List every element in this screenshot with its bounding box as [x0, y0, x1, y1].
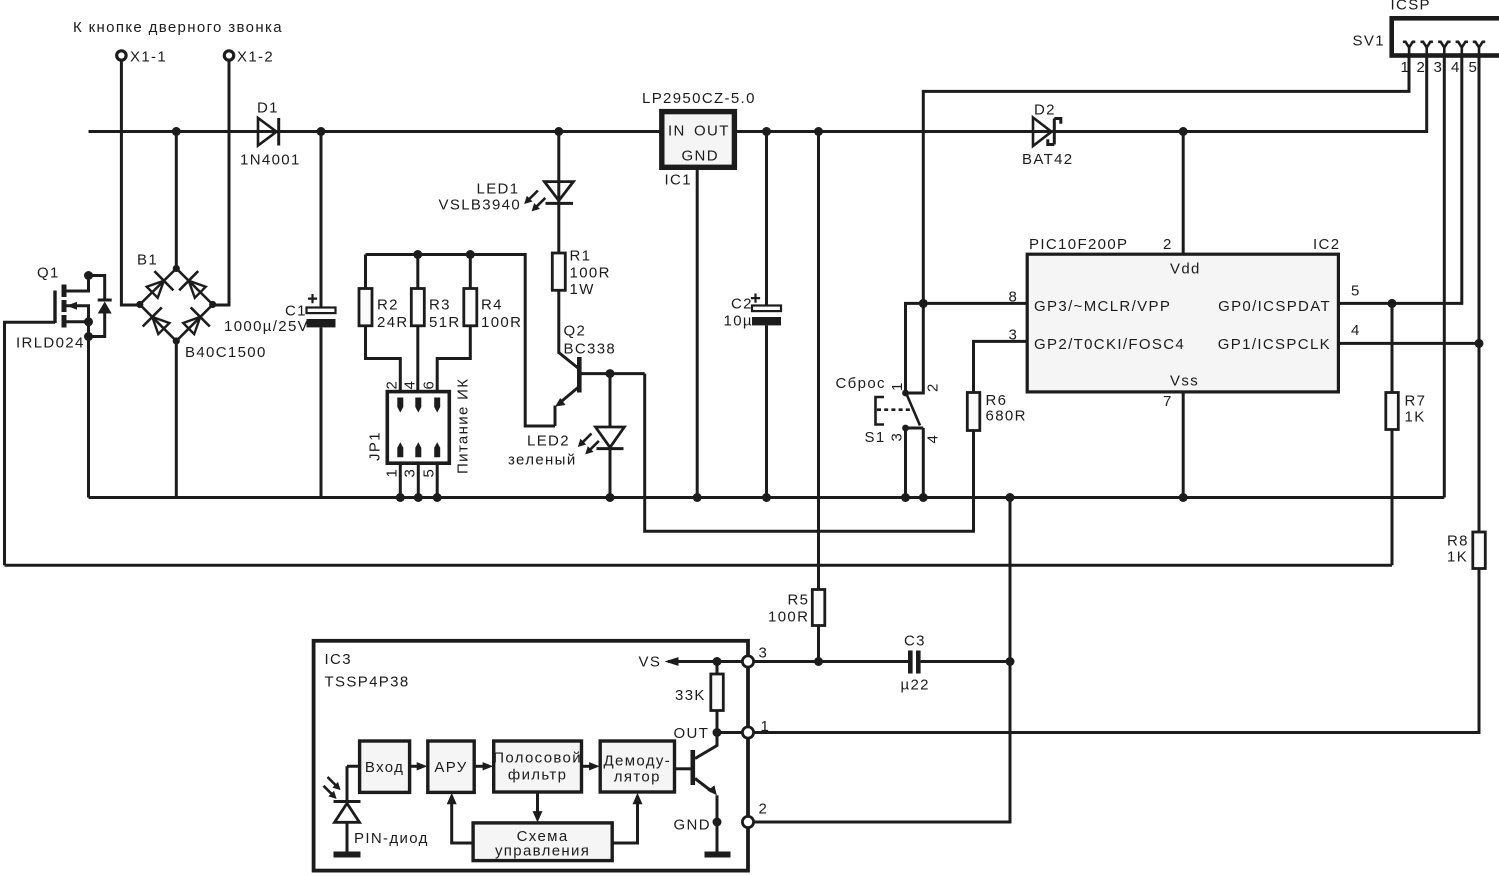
- wire Vss pin 7 to rail: [1182, 392, 1185, 498]
- svg-text:IC2: IC2: [1313, 236, 1340, 253]
- node +5 rail to Vdd: [1179, 127, 1188, 136]
- wire Q2 base to GP2 via R6: [645, 374, 974, 532]
- svg-text:лятор: лятор: [614, 769, 661, 786]
- svg-text:7: 7: [1163, 393, 1173, 410]
- pinheads: [1403, 42, 1415, 57]
- wire B1 top vertex to rail: [175, 132, 178, 269]
- jumper block JP1: [367, 378, 472, 478]
- svg-text:5: 5: [1351, 283, 1361, 300]
- svg-text:100R: 100R: [768, 609, 809, 626]
- MOSFET Q1 IRLD024: [16, 265, 112, 352]
- block Демодулятор: [600, 741, 674, 792]
- body diode (filled): [98, 302, 112, 314]
- svg-text:24R: 24R: [377, 314, 409, 331]
- resistor R2 24R: [359, 255, 409, 393]
- svg-text:3: 3: [402, 468, 419, 478]
- svg-text:GND: GND: [674, 817, 711, 834]
- resistor R1 100R 1W: [552, 248, 610, 299]
- block АРУ: [428, 741, 474, 792]
- transistor Q2 BC338: [555, 323, 645, 427]
- svg-text:PIC10F200P: PIC10F200P: [1029, 236, 1128, 253]
- svg-text:Q1: Q1: [37, 265, 60, 282]
- IC3 pin 3 (VS): [742, 645, 768, 668]
- wire Vdd pin 2: [1182, 132, 1185, 255]
- wire X1-2 down to bridge right vertex: [212, 62, 229, 306]
- svg-text:R2: R2: [377, 297, 399, 314]
- svg-text:зеленый: зеленый: [508, 452, 577, 469]
- drain lead: [66, 276, 89, 292]
- arrow Схема to АРУ: [452, 803, 473, 843]
- svg-text:D2: D2: [1034, 102, 1056, 119]
- LED1 VSLB3940: [439, 132, 574, 254]
- svg-text:1: 1: [761, 718, 771, 735]
- pushbutton S1 (reset): [836, 303, 942, 502]
- svg-text:3: 3: [889, 432, 906, 442]
- IC3 pin 1 (OUT): [742, 718, 770, 738]
- svg-text:управления: управления: [495, 843, 590, 860]
- wire IC1 GND to rail: [696, 167, 699, 497]
- svg-text:ICSP: ICSP: [1391, 0, 1431, 14]
- svg-text:100R: 100R: [481, 314, 522, 331]
- svg-text:3: 3: [1434, 59, 1444, 76]
- svg-text:LP2950CZ-5.0: LP2950CZ-5.0: [642, 90, 756, 107]
- microcontroller IC2 PIC10F200P: [1009, 236, 1361, 410]
- junction dots: [84, 271, 93, 280]
- arrow АРУ to Полосовой: [474, 765, 484, 768]
- wire B1 bottom vertex to ground rail: [175, 341, 178, 498]
- svg-text:10µ: 10µ: [724, 313, 753, 330]
- svg-text:IRLD024: IRLD024: [16, 335, 85, 352]
- switch arm: [907, 394, 921, 426]
- svg-text:5: 5: [1469, 59, 1479, 76]
- gate bar: [53, 291, 56, 324]
- svg-text:C2: C2: [731, 296, 753, 313]
- plus sign: [308, 294, 317, 303]
- IC3 internal: PIN photodiode: [324, 766, 429, 857]
- svg-text:BAT42: BAT42: [1022, 151, 1074, 168]
- wire VS line pin3 to C3 to GND vertical: [754, 660, 1011, 663]
- svg-text:1W: 1W: [570, 281, 595, 298]
- svg-text:R4: R4: [481, 297, 503, 314]
- svg-text:1: 1: [1401, 59, 1411, 76]
- svg-text:Демоду-: Демоду-: [604, 753, 672, 770]
- bottom tie and pins 3,4 to rail: [906, 428, 924, 498]
- svg-text:Полосовой: Полосовой: [493, 750, 582, 767]
- diode in bottom-left edge: [152, 317, 169, 334]
- svg-text:51R: 51R: [429, 314, 461, 331]
- arrow Полосовой down to Схема: [536, 792, 539, 812]
- svg-text:4: 4: [402, 380, 419, 390]
- wires JP1 bottom pins to ground rail: [400, 463, 437, 497]
- svg-text:Вход: Вход: [365, 759, 404, 776]
- source lead: [66, 320, 89, 323]
- resistor R6 680R: [967, 392, 1026, 431]
- diode in bottom-right edge: [183, 317, 200, 334]
- IC3 internal: OUT line: [674, 725, 743, 742]
- svg-text:R3: R3: [429, 297, 451, 314]
- svg-text:µ22: µ22: [901, 677, 930, 694]
- svg-text:D1: D1: [257, 100, 279, 117]
- bottom pin stubs: [397, 442, 403, 457]
- actuator bracket: [876, 397, 885, 425]
- IC3 internal: output transistor: [674, 733, 731, 858]
- svg-text:2: 2: [925, 382, 942, 392]
- svg-text:VSLB3940: VSLB3940: [439, 197, 522, 214]
- svg-text:фильтр: фильтр: [508, 767, 567, 784]
- IR receiver IC3 TSSP4P38: [314, 641, 748, 871]
- wire Q1 gate to long gate line: [5, 322, 56, 565]
- svg-text:B1: B1: [137, 252, 158, 269]
- svg-text:1N4001: 1N4001: [240, 152, 301, 169]
- svg-text:GP3/~MCLR/VPP: GP3/~MCLR/VPP: [1034, 298, 1171, 315]
- svg-text:1000µ/25V: 1000µ/25V: [224, 318, 309, 335]
- svg-text:R1: R1: [570, 248, 592, 265]
- svg-text:4: 4: [1451, 59, 1461, 76]
- svg-text:IN: IN: [668, 123, 686, 140]
- capacitor C1 1000u/25V: [224, 132, 336, 498]
- node Q2 base / LED2: [606, 369, 615, 378]
- svg-text:TSSP4P38: TSSP4P38: [325, 674, 410, 691]
- svg-text:X1-2: X1-2: [237, 49, 274, 66]
- svg-text:1K: 1K: [1405, 409, 1426, 426]
- svg-text:GP0/ICSPDAT: GP0/ICSPDAT: [1218, 298, 1331, 315]
- resistor R3 51R: [411, 255, 460, 393]
- emission arrows: [528, 191, 538, 201]
- svg-text:Сброс: Сброс: [836, 375, 886, 392]
- arrow Вход to АРУ: [410, 765, 418, 768]
- ICSP pin5 wire down through R8 to IC3 OUT: [1478, 57, 1481, 532]
- internal ground bar: [705, 852, 731, 858]
- svg-text:Питание ИК: Питание ИК: [455, 378, 472, 474]
- block Вход: [360, 741, 410, 792]
- svg-text:C1: C1: [285, 303, 307, 320]
- block Схема управления: [473, 823, 612, 861]
- IC3 internal: VS line with arrow: [639, 654, 743, 671]
- body diode branch: [89, 276, 105, 337]
- svg-text:4: 4: [1351, 322, 1361, 339]
- ICSP pin3 wire to ground rail: [1443, 57, 1446, 498]
- diode D1 1N4001: [240, 100, 301, 169]
- resistor R7 1K (gate series): [1386, 303, 1427, 565]
- base lead to right: [581, 372, 645, 375]
- resistor R5 100R (supply filter): [768, 127, 825, 662]
- svg-text:АРУ: АРУ: [434, 759, 467, 776]
- node rail/LED1: [554, 127, 563, 136]
- svg-text:VS: VS: [639, 654, 662, 671]
- emission arrows: [581, 434, 591, 444]
- svg-text:Q2: Q2: [564, 323, 587, 340]
- svg-text:C3: C3: [904, 633, 926, 650]
- node: rail to B1 top: [172, 127, 181, 136]
- svg-text:R7: R7: [1405, 393, 1427, 410]
- resistor bank top rail: [366, 255, 556, 427]
- svg-text:SV1: SV1: [1353, 33, 1385, 50]
- svg-text:1: 1: [384, 468, 401, 478]
- svg-text:GND: GND: [682, 148, 719, 165]
- svg-text:1K: 1K: [1447, 549, 1468, 566]
- svg-text:IC3: IC3: [325, 651, 352, 668]
- wire top rail right (+5V after IC1): [735, 57, 1427, 132]
- IC3 pin 2 (GND): [742, 801, 768, 828]
- svg-text:680R: 680R: [986, 408, 1027, 425]
- contacts: [902, 390, 909, 397]
- svg-text:GP1/ICSPCLK: GP1/ICSPCLK: [1218, 336, 1331, 353]
- svg-text:R8: R8: [1447, 533, 1469, 550]
- svg-text:B40C1500: B40C1500: [185, 344, 267, 361]
- svg-text:JP1: JP1: [367, 431, 384, 461]
- wire top rail left (unregulated +): [89, 130, 662, 133]
- wire IC3 GND pin2 to ground rail: [754, 498, 1011, 823]
- svg-text:2: 2: [1163, 236, 1173, 253]
- wire GP0 pin 5 to ICSP pin 4: [1338, 57, 1461, 303]
- svg-text:LED1: LED1: [477, 181, 520, 198]
- resistor R8 1K: [754, 532, 1486, 733]
- capacitor C3 u22: [901, 633, 930, 694]
- IC3 internal: 33K resistor: [675, 662, 723, 733]
- diode in top-left edge: [147, 281, 164, 298]
- svg-text:PIN-диод: PIN-диод: [354, 830, 429, 847]
- svg-text:S1: S1: [865, 429, 886, 446]
- channel bars: [62, 285, 67, 298]
- top pin stubs: [397, 398, 403, 413]
- LED2 green: [508, 374, 624, 498]
- capacitor C2 10u: [724, 127, 782, 502]
- svg-text:R6: R6: [986, 392, 1008, 409]
- wire Q1 source down to ground rail: [87, 322, 90, 498]
- body connection with arrow: [66, 306, 89, 322]
- wire ICSP pin1 to GP3 line: [923, 57, 1409, 303]
- svg-text:Vdd: Vdd: [1170, 261, 1201, 278]
- terminal X1-1: [117, 49, 167, 66]
- emitter diagonal with arrow: [560, 388, 579, 404]
- emitter wire to resistor bank: [554, 406, 557, 427]
- svg-text:OUT: OUT: [694, 123, 730, 140]
- base/channel bar: [577, 357, 582, 393]
- diode D2 BAT42 (schottky): [1022, 102, 1074, 169]
- block Полосовой фильтр: [493, 741, 582, 792]
- svg-text:GP2/T0CKI/FOSC4: GP2/T0CKI/FOSC4: [1034, 336, 1185, 353]
- wire X1-1 down to bridge left vertex: [121, 62, 141, 306]
- svg-text:5: 5: [421, 468, 438, 478]
- svg-text:Vss: Vss: [1170, 373, 1199, 390]
- B1 vertex dots: [173, 265, 180, 272]
- wire R1 bottom to Q2 collector: [559, 290, 578, 368]
- arrow Полосовой to Демодулятор: [582, 765, 591, 768]
- pin 2 wire from GP3 node: [906, 303, 924, 393]
- ICSP connector SV1: [1353, 0, 1499, 76]
- svg-text:BC338: BC338: [564, 341, 617, 358]
- svg-text:OUT: OUT: [674, 725, 710, 742]
- voltage regulator IC1 LP2950CZ-5.0: [642, 90, 756, 189]
- wire GP2 pin 3 to R6: [974, 341, 1028, 392]
- ground rail (Vss): [89, 496, 1445, 499]
- incident light arrows: [328, 777, 338, 787]
- wire GP1 pin 4 to ICSP pin 5 / R8: [1338, 342, 1479, 345]
- svg-text:33K: 33K: [675, 687, 706, 704]
- svg-text:1: 1: [889, 381, 906, 391]
- svg-text:К кнопке дверного звонка: К кнопке дверного звонка: [73, 19, 283, 36]
- svg-text:3: 3: [759, 645, 769, 662]
- svg-text:R5: R5: [788, 592, 810, 609]
- bridge rectifier B1 B40C1500: [136, 252, 267, 362]
- svg-text:6: 6: [421, 380, 438, 390]
- svg-text:LED2: LED2: [527, 433, 570, 450]
- svg-text:2: 2: [1417, 59, 1427, 76]
- node: D1 cathode / C1 junction: [317, 127, 326, 136]
- arrow Схема to Демодулятор: [612, 803, 637, 843]
- svg-text:IC1: IC1: [665, 172, 692, 189]
- svg-text:2: 2: [759, 801, 769, 818]
- svg-text:100R: 100R: [570, 265, 611, 282]
- diode in top-right edge: [189, 281, 206, 298]
- terminal X1-2: [224, 49, 274, 66]
- wire GP3 pin 8 to S1: [906, 303, 1028, 393]
- long gate line to R7: [5, 564, 1393, 567]
- svg-text:2: 2: [384, 380, 401, 390]
- svg-text:X1-1: X1-1: [130, 49, 167, 66]
- resistor R4 100R: [437, 255, 522, 393]
- svg-text:4: 4: [925, 434, 942, 444]
